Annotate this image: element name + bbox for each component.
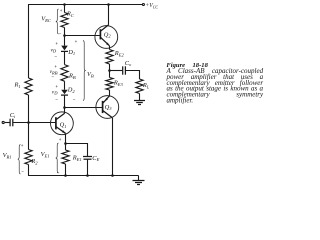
capacitor Co: [123, 66, 126, 74]
input terminal: [2, 121, 4, 123]
svg-text:−: −: [21, 169, 24, 174]
wire to RE3: [109, 71, 111, 78]
capacitor CE: [83, 157, 92, 160]
junction dot CE bottom: [86, 174, 89, 177]
wire D2 to lower node: [64, 95, 66, 113]
junction dot Q3 collector bottom: [111, 174, 114, 177]
diode D1: [61, 46, 68, 51]
svg-text:Q3: Q3: [105, 104, 113, 111]
svg-text:+: +: [21, 143, 24, 148]
transistor Q2: [95, 25, 118, 49]
wire terminal to Ci: [5, 122, 10, 124]
ground main: [133, 176, 145, 185]
wire RE1 to rail: [65, 164, 67, 176]
resistor RL: [136, 79, 143, 94]
wire node to Q3 base: [65, 107, 103, 109]
wire left branch top: [28, 5, 30, 79]
wire Q1 emitter down: [65, 133, 67, 150]
wire RL to ground: [139, 94, 141, 101]
wire Co to RL: [126, 71, 140, 80]
svg-text:R1: R1: [14, 82, 21, 89]
wire node to Q2 base: [65, 35, 101, 37]
brace VB1: [18, 145, 21, 175]
svg-text:−: −: [57, 171, 60, 176]
wire RC to node: [64, 28, 66, 46]
svg-text:+: +: [75, 39, 78, 44]
svg-text:−: −: [55, 97, 58, 102]
+VCC supply terminal: [142, 4, 144, 6]
wire emitter node to CE: [66, 144, 88, 157]
svg-text:VB: VB: [87, 71, 94, 78]
bottom rail wire: [28, 175, 139, 177]
svg-text:+VCC: +VCC: [145, 3, 158, 9]
svg-text:VE1: VE1: [41, 151, 50, 158]
wire output node to Co: [110, 70, 123, 72]
junction dot bias top node: [63, 34, 66, 37]
svg-text:−: −: [59, 32, 62, 37]
junction dot Q2 collector top: [107, 3, 110, 6]
wire D1 to RB: [64, 51, 66, 64]
junction dot input node: [27, 121, 30, 124]
svg-text:+: +: [55, 84, 58, 89]
wire R2 to bottom rail: [28, 165, 30, 176]
svg-text:Q2: Q2: [104, 31, 112, 38]
junction dot bias bottom node: [63, 106, 66, 109]
resistor RE2: [106, 50, 113, 65]
resistor RE1: [62, 150, 69, 164]
wire R1 to input node: [28, 95, 30, 150]
svg-text:D2: D2: [67, 87, 76, 94]
svg-text:RE1: RE1: [72, 155, 82, 162]
wire top rail to RC: [64, 5, 66, 13]
svg-text:−: −: [54, 54, 57, 59]
svg-text:+: +: [55, 41, 58, 46]
svg-text:RE3: RE3: [113, 80, 124, 87]
resistor RC: [61, 13, 68, 28]
top supply rail wire: [28, 4, 142, 6]
svg-text:Ci: Ci: [10, 112, 16, 119]
transistor Q1: [51, 112, 74, 135]
svg-text:D1: D1: [67, 49, 75, 56]
resistor RB: [61, 65, 68, 82]
svg-text:+: +: [54, 64, 57, 69]
diode D2: [61, 90, 68, 94]
transistor Q3: [96, 96, 119, 119]
wire Q2 collector to rail: [108, 5, 110, 25]
capacitor Ci: [10, 119, 13, 127]
resistor R2: [25, 150, 32, 165]
junction dot output node: [108, 69, 111, 72]
svg-text:+: +: [59, 137, 62, 142]
wire RE2 to output node: [109, 64, 111, 71]
junction dot emitter node: [64, 142, 67, 145]
svg-text:Q1: Q1: [60, 121, 67, 128]
brace VE1: [56, 143, 59, 173]
svg-text:R2: R2: [30, 158, 38, 165]
wire CE to rail: [87, 160, 89, 176]
svg-text:+: +: [60, 8, 63, 13]
svg-text:VRC: VRC: [41, 16, 52, 23]
svg-text:−: −: [51, 74, 54, 79]
resistor RE3: [106, 78, 113, 91]
svg-text:vD: vD: [51, 48, 57, 54]
svg-text:Co: Co: [125, 60, 132, 67]
wire RE3 to Q3 emitter: [109, 90, 111, 96]
ground RL: [134, 101, 145, 105]
junction dot RE1 bottom: [64, 174, 67, 177]
svg-text:RB: RB: [68, 72, 76, 79]
svg-text:RL: RL: [142, 82, 150, 89]
svg-text:amplifier.: amplifier.: [167, 97, 194, 105]
svg-text:−: −: [73, 97, 76, 102]
brace VRC: [56, 9, 59, 34]
resistor R1: [25, 78, 32, 95]
wire Q3 collector to bottom rail: [112, 118, 114, 176]
svg-text:CE: CE: [92, 155, 99, 162]
svg-text:RC: RC: [66, 10, 75, 17]
wire RB to D2: [64, 81, 66, 90]
wire Ci to Q1 base: [13, 122, 56, 124]
brace VB: [83, 41, 86, 101]
svg-text:VB1: VB1: [3, 152, 12, 159]
junction dot RC top: [63, 3, 66, 6]
svg-text:RE2: RE2: [114, 50, 125, 57]
wire Q2 emitter to RE2: [109, 46, 111, 50]
svg-text:vD: vD: [52, 89, 58, 95]
